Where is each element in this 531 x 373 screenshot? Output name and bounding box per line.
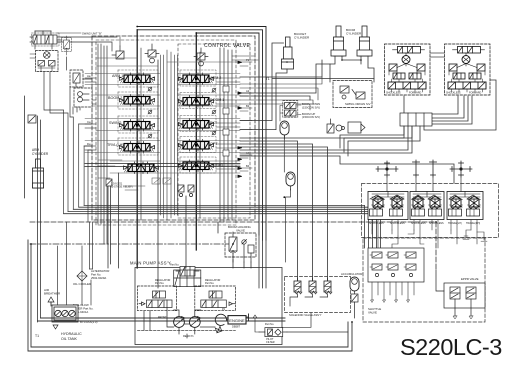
- pump regulator left: [138, 286, 177, 311]
- left small box above arm cylinder: [28, 115, 36, 123]
- solenoid valve 3: [324, 278, 332, 297]
- spool TRVL(RH): [179, 160, 214, 172]
- tank strainer: [53, 325, 58, 329]
- wire pump feeds up to CV: [108, 60, 266, 288]
- wire bundle B CV right staircase: [240, 96, 454, 281]
- shuttle valve manifold: [368, 248, 424, 282]
- svg-text:FORWARD: FORWARD: [469, 92, 481, 95]
- boom holding valve box: [225, 232, 256, 262]
- solenoid valve 2: [309, 278, 317, 297]
- svg-text:SWING UNIT "B": SWING UNIT "B": [82, 32, 102, 36]
- svg-text:CONTROL VALVE: CONTROL VALVE: [204, 43, 250, 49]
- boom cylinder 2: [357, 26, 372, 56]
- CV right port arrowheads: [238, 61, 242, 178]
- junction knots on feed lines: [136, 78, 198, 168]
- swing make-up valve: [62, 36, 72, 55]
- svg-text:SHOCKLESS: SHOCKLESS: [369, 222, 384, 225]
- svg-text:ACCUMULATOR: ACCUMULATOR: [341, 272, 362, 276]
- svg-text:FRONT: FRONT: [158, 316, 167, 319]
- svg-text:Da: Da: [87, 142, 91, 146]
- spool SWING: [120, 120, 155, 132]
- wire CV right to cylinder bundle: [232, 56, 322, 110]
- svg-text:(150CON S/V): (150CON S/V): [302, 115, 320, 119]
- boom up solenoid: [285, 110, 297, 116]
- joystick cross right: [450, 161, 472, 177]
- pump top pilot cluster: [170, 264, 199, 277]
- svg-text:B4: B4: [246, 164, 250, 168]
- svg-text:MAIN PUMP ASS'Y: MAIN PUMP ASS'Y: [130, 261, 171, 266]
- svg-text:SWING ORIGIN S/V: SWING ORIGIN S/V: [345, 102, 371, 106]
- svg-text:DB58T: DB58T: [232, 325, 240, 329]
- joystick cross left: [376, 161, 398, 177]
- RCV block 2 (RH joystick): [410, 192, 444, 220]
- svg-text:Ca: Ca: [87, 120, 91, 124]
- engine fan bowtie: [215, 326, 221, 332]
- svg-text:ENGINE: ENGINE: [229, 318, 245, 323]
- boom down solenoid: [285, 103, 297, 109]
- engine coupling: [215, 314, 229, 325]
- swing unit dashed enclosure: [32, 33, 60, 46]
- CV spool row work-port lines: [85, 58, 240, 173]
- bucket cylinder: [282, 37, 294, 69]
- spool ARM 1: [120, 73, 155, 85]
- svg-text:(150CON S/V): (150CON S/V): [302, 105, 320, 109]
- wire T1 line: [273, 78, 375, 80]
- CV main feed thick verticals through spool columns: [137, 30, 200, 268]
- svg-text:CYLINDER: CYLINDER: [294, 36, 310, 40]
- wire tank return drops: [51, 222, 82, 305]
- svg-text:Aa: Aa: [87, 74, 91, 78]
- CV center bypass vertical lines: [161, 50, 178, 220]
- svg-text:T1: T1: [266, 77, 270, 81]
- wire accumulator stubs: [280, 106, 291, 263]
- svg-text:TRVL(LH): TRVL(LH): [107, 143, 124, 147]
- wire pilot supply bottom center: [282, 313, 348, 332]
- RCV block 1 (LH joystick): [368, 192, 408, 220]
- svg-text:Part No.: Part No.: [155, 282, 164, 285]
- CV left feed vertical lines: [98, 44, 107, 244]
- swing origin solenoid box: [333, 81, 372, 108]
- shuttle valve dashed enclosure: [363, 238, 485, 322]
- CV spool sub-section dashed boxes: [118, 70, 216, 173]
- swing motor block: [30, 51, 58, 72]
- wire travel row dark lines: [85, 164, 240, 167]
- accumulator shutoff valve: [351, 294, 358, 318]
- engine box: [228, 316, 246, 324]
- svg-text:S220LC-3: S220LC-3: [400, 334, 502, 360]
- svg-text:REAR P1: REAR P1: [183, 335, 194, 338]
- lever pedal 2: [430, 160, 437, 177]
- svg-text:BOOM 2: BOOM 2: [108, 96, 122, 100]
- svg-text:B2: B2: [246, 104, 250, 108]
- spool left bottom aux: [124, 162, 159, 174]
- svg-text:BREATHER: BREATHER: [44, 292, 61, 296]
- main pump assy outer box: [135, 268, 282, 345]
- wire shuttle manifold down stubs: [371, 282, 415, 303]
- CV bottom port relief valves: [178, 185, 194, 197]
- emergency pump cluster: [327, 119, 365, 133]
- wire long pilot dashed lines: [30, 222, 436, 270]
- wire junction strip down: [340, 126, 420, 156]
- swing unit top-left valve box: [30, 31, 57, 44]
- boom up label with leader: [297, 114, 301, 116]
- wire alternator drop lines: [90, 222, 93, 305]
- wire top loop lines to pump: [137, 27, 266, 241]
- wire swing feed lines down: [44, 72, 92, 222]
- air breather symbol: [48, 297, 54, 306]
- accumulator upper: [280, 121, 289, 139]
- svg-text:CYLINDER: CYLINDER: [346, 32, 362, 36]
- wire swing top connection: [35, 40, 92, 87]
- spool BOOM 1: [179, 96, 214, 108]
- CV left port stubs and tiny labels: [85, 78, 96, 150]
- svg-text:FILTER: FILTER: [266, 341, 275, 344]
- CV right edge port stubs: [240, 62, 252, 171]
- svg-text:VALVE: VALVE: [368, 311, 377, 315]
- spool ARM 2: [179, 73, 214, 85]
- travel motor block right: [445, 44, 491, 95]
- solenoid valve 3-pack dashed box: [285, 277, 351, 313]
- svg-text:2502-9029A: 2502-9029A: [91, 276, 106, 280]
- wire RCV2 stubs into shuttle: [372, 230, 451, 248]
- wire joystick stems: [387, 177, 461, 192]
- RCV block 3 (travel pedals): [447, 192, 483, 220]
- swing reduction gear box: [74, 88, 92, 107]
- wire left outer verticals: [25, 96, 41, 322]
- spool OPT: [179, 140, 214, 152]
- check valves between CV columns: [148, 86, 229, 156]
- svg-text:T1: T1: [35, 334, 39, 338]
- spool BOOM 2: [120, 95, 155, 107]
- accumulator right: [350, 277, 359, 295]
- svg-text:TRAVEL(RH): TRAVEL(RH): [466, 222, 480, 225]
- swing brake valve box: [70, 70, 83, 87]
- svg-text:SWING: SWING: [109, 121, 122, 125]
- svg-text:Part No.: Part No.: [205, 282, 214, 285]
- CV top-left inlet valve: [112, 46, 124, 59]
- svg-text:EPPR VALVE: EPPR VALVE: [461, 277, 479, 281]
- svg-text:SHOCKLESS: SHOCKLESS: [446, 92, 461, 95]
- CV right port stubs: [216, 78, 240, 169]
- boom down/up solenoid dashed box: [283, 101, 298, 118]
- RCV outer dashed enclosure top: [362, 184, 499, 238]
- pump swash links: [138, 300, 236, 338]
- junction strip: [400, 113, 432, 126]
- swing unit B label + leader: [57, 32, 81, 34]
- boom cylinder 1: [331, 26, 346, 56]
- accumulator lower: [286, 172, 295, 190]
- svg-text:TRAVEL(LH): TRAVEL(LH): [448, 222, 462, 225]
- svg-text:Part No.: Part No.: [170, 264, 179, 267]
- CV right side vertical lines: [220, 48, 232, 222]
- svg-text:VALVE: VALVE: [236, 229, 245, 233]
- solenoid valve 1: [294, 278, 302, 297]
- lever pedal 1: [413, 160, 420, 177]
- main relief valve cluster right column: [194, 48, 208, 66]
- control valve outer dashed box: [92, 36, 255, 225]
- svg-text:SHOCKLESS: SHOCKLESS: [386, 92, 401, 95]
- arm cylinder: [33, 159, 44, 188]
- hydraulic tank box with filters: [52, 305, 78, 322]
- svg-text:FORWARD: FORWARD: [409, 92, 421, 95]
- svg-text:ARM 1: ARM 1: [112, 74, 123, 78]
- wire bottom double rails: [28, 240, 352, 351]
- pilot pump cluster: [253, 315, 287, 344]
- tank return filters: [55, 310, 61, 316]
- pump regulator right: [195, 286, 236, 311]
- svg-text:OIL COOLER: OIL COOLER: [73, 282, 92, 286]
- travel motor block left: [385, 44, 431, 95]
- svg-text:SHOCKLESS: SHOCKLESS: [411, 222, 426, 225]
- wire between travel motors: [430, 53, 445, 57]
- svg-text:HYDRAULIC: HYDRAULIC: [61, 332, 82, 336]
- CV lower-left detail marks: [98, 160, 171, 190]
- pump center servo block: [174, 270, 201, 287]
- svg-text:OIL TANK: OIL TANK: [61, 337, 78, 341]
- pump circle 1: [174, 317, 185, 328]
- spool TRVL(LH): [120, 142, 155, 154]
- main relief valve cluster left column: [145, 44, 159, 63]
- wire travel motor down-routing: [424, 80, 496, 130]
- EPPR valve box: [436, 270, 485, 319]
- svg-text:Part No.: Part No.: [265, 323, 274, 326]
- wire cylinder manifold: [240, 43, 374, 130]
- oil cooler symbol: [77, 271, 87, 281]
- spool BKT: [179, 119, 214, 131]
- pump circle 2: [189, 317, 200, 328]
- boom down label with leader: [297, 104, 301, 106]
- wire pilot bundle A horizontals: [64, 205, 381, 248]
- CV bottom 2-stage relief: [106, 179, 112, 186]
- wire solenoid pack drains: [290, 297, 328, 306]
- wire swing unit to CV top: [57, 37, 120, 51]
- svg-text:SOLENOID VALVE ASS'Y: SOLENOID VALVE ASS'Y: [289, 313, 322, 317]
- svg-text:A2: A2: [246, 89, 250, 93]
